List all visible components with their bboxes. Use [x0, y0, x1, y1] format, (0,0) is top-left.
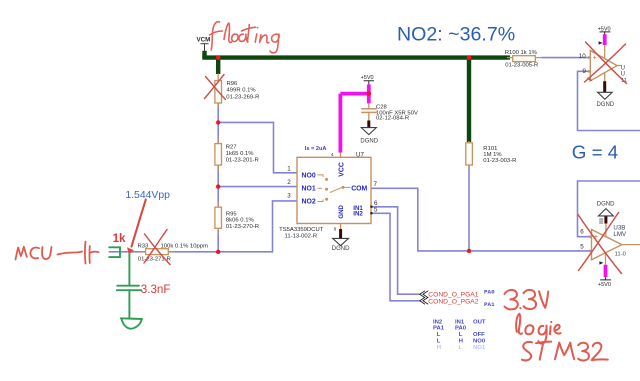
- svg-text:01-23-270-R: 01-23-270-R: [226, 224, 259, 230]
- svg-text:3.3nF: 3.3nF: [141, 283, 171, 296]
- svg-text:TS5A3359DCUT: TS5A3359DCUT: [279, 227, 324, 233]
- svg-text:8: 8: [334, 227, 337, 232]
- svg-text:DGND: DGND: [332, 246, 350, 252]
- svg-text:R96: R96: [227, 81, 239, 87]
- svg-text:OFF: OFF: [473, 332, 485, 338]
- svg-text:NO0: NO0: [302, 172, 316, 179]
- svg-text:+5V0: +5V0: [361, 75, 374, 81]
- svg-text:1M 1%: 1M 1%: [483, 152, 502, 158]
- svg-text:DGND: DGND: [360, 138, 378, 144]
- svg-text:+5V0: +5V0: [598, 282, 611, 288]
- svg-text:01-23-003-R: 01-23-003-R: [483, 158, 516, 164]
- svg-text:NO2: NO2: [302, 199, 316, 206]
- svg-text:H: H: [437, 345, 441, 351]
- svg-text:U7: U7: [356, 151, 364, 158]
- svg-text:PA0: PA0: [455, 326, 467, 332]
- svg-text:R100 1k 1%: R100 1k 1%: [505, 50, 538, 56]
- svg-text:4: 4: [331, 152, 334, 157]
- svg-text:NO1: NO1: [473, 345, 486, 351]
- svg-text:L: L: [437, 339, 441, 345]
- svg-text:L: L: [459, 345, 463, 351]
- svg-text:NO0: NO0: [473, 339, 486, 345]
- svg-text:VCM: VCM: [197, 36, 211, 43]
- svg-text:2: 2: [287, 179, 291, 186]
- svg-text:6: 6: [580, 229, 584, 236]
- svg-text:01-23-005-R: 01-23-005-R: [505, 62, 538, 68]
- svg-text:PA0: PA0: [484, 289, 495, 296]
- svg-text:L: L: [437, 332, 441, 338]
- svg-text:01-23-269-R: 01-23-269-R: [226, 94, 259, 100]
- svg-text:R33: R33: [138, 244, 150, 250]
- svg-text:8k06 0.1%: 8k06 0.1%: [226, 218, 255, 224]
- svg-text:R27: R27: [226, 145, 237, 151]
- svg-text:PA1: PA1: [433, 326, 445, 332]
- svg-text:IN2: IN2: [353, 211, 363, 218]
- svg-text:L: L: [459, 332, 463, 338]
- svg-text:LMV: LMV: [613, 231, 627, 238]
- svg-text:NO2: ~36.7%: NO2: ~36.7%: [397, 23, 515, 45]
- svg-text:PA1: PA1: [484, 301, 495, 308]
- svg-text:OUT: OUT: [473, 319, 486, 325]
- svg-text:9: 9: [583, 68, 587, 75]
- svg-text:IN1: IN1: [455, 319, 465, 325]
- svg-text:U: U: [621, 72, 625, 78]
- svg-text:11-13-002-R: 11-13-002-R: [285, 233, 318, 239]
- svg-text:7: 7: [374, 181, 378, 188]
- svg-text:1: 1: [287, 165, 291, 172]
- svg-text:1.544Vpp: 1.544Vpp: [125, 190, 170, 201]
- svg-text:DGND: DGND: [597, 201, 615, 207]
- svg-text:NO1: NO1: [302, 186, 316, 193]
- svg-text:02-12-084-R: 02-12-084-R: [376, 116, 409, 122]
- svg-text:11-0: 11-0: [615, 252, 627, 258]
- svg-text:IN2: IN2: [433, 319, 443, 325]
- svg-text:1k65 0.1%: 1k65 0.1%: [226, 151, 255, 157]
- svg-text:10: 10: [579, 53, 586, 60]
- svg-text:+5V0: +5V0: [598, 26, 611, 32]
- svg-text:DGND: DGND: [596, 102, 614, 108]
- svg-text:5: 5: [580, 243, 584, 250]
- svg-text:C28: C28: [376, 104, 388, 110]
- svg-text:VCC: VCC: [338, 162, 345, 177]
- svg-text:COND_O_PGA1: COND_O_PGA1: [428, 292, 478, 299]
- svg-text:499R 0.1%: 499R 0.1%: [227, 87, 257, 93]
- svg-text:100k 0.1% 10ppm: 100k 0.1% 10ppm: [161, 244, 209, 250]
- svg-text:1k: 1k: [113, 232, 126, 245]
- svg-text:H: H: [459, 339, 463, 345]
- svg-text:COM: COM: [351, 186, 367, 193]
- svg-text:Is = 2uA: Is = 2uA: [305, 146, 327, 152]
- svg-text:U: U: [621, 66, 625, 72]
- svg-text:3: 3: [287, 193, 291, 200]
- svg-text:COND_O_PGA2: COND_O_PGA2: [428, 299, 478, 306]
- svg-text:G = 4: G = 4: [572, 141, 618, 162]
- svg-text:GND: GND: [338, 204, 345, 218]
- svg-text:5: 5: [374, 207, 378, 214]
- svg-text:01-23-201-R: 01-23-201-R: [226, 157, 259, 163]
- svg-text:R95: R95: [226, 212, 238, 218]
